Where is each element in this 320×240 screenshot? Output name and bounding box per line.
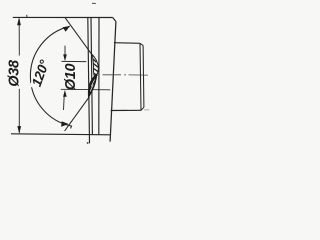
dimension line d38 lower segment: [18, 89, 20, 133]
arrow d38 bottom: [17, 126, 21, 134]
bottom edge faint tail: [144, 109, 150, 111]
top extension line / flange top edge: [13, 16, 113, 18]
flange right face: [110, 22, 116, 142]
shaft end face: [142, 45, 145, 107]
center line: [103, 74, 122, 76]
shaft end chamfer bottom: [141, 107, 144, 110]
label d10: [63, 64, 79, 91]
shaft chamfer circle line: [140, 44, 141, 111]
svg-text:Ø38: Ø38: [6, 59, 22, 87]
shaft end chamfer top: [140, 43, 143, 45]
label d38: [6, 59, 22, 87]
d10 bottom extension line: [61, 88, 111, 91]
angular dimension arc 120: [30, 26, 71, 128]
flange top chamfer: [113, 18, 116, 22]
small tick above top line: [26, 15, 28, 17]
svg-text:Ø10: Ø10: [63, 64, 79, 91]
shaft top edge: [114, 42, 140, 45]
dimension line d38 upper segment: [18, 19, 20, 56]
thread leaf lower: [88, 74, 96, 98]
paper background: [0, 0, 150, 150]
bottom extension line / flange bottom edge: [11, 134, 110, 135]
d10 arrow bottom: [63, 96, 66, 111]
front face line v3: [98, 17, 100, 134]
arc arrow bottom: [61, 121, 68, 127]
thread leaf upper: [93, 55, 99, 78]
front face line v2: [91, 17, 92, 134]
arc arrow top: [63, 26, 70, 32]
shaft bottom edge: [111, 109, 142, 111]
label 120deg: [28, 56, 53, 91]
d10 top extension line: [62, 60, 87, 62]
small arrow remnant bottom: [87, 142, 89, 144]
arrow d38 top: [17, 18, 21, 26]
cone leg upper: [65, 18, 92, 56]
stray dash top right: [92, 2, 96, 4]
front face line v1: [88, 17, 90, 143]
cone leg lower: [65, 97, 90, 131]
d10 arrow top: [64, 46, 66, 57]
